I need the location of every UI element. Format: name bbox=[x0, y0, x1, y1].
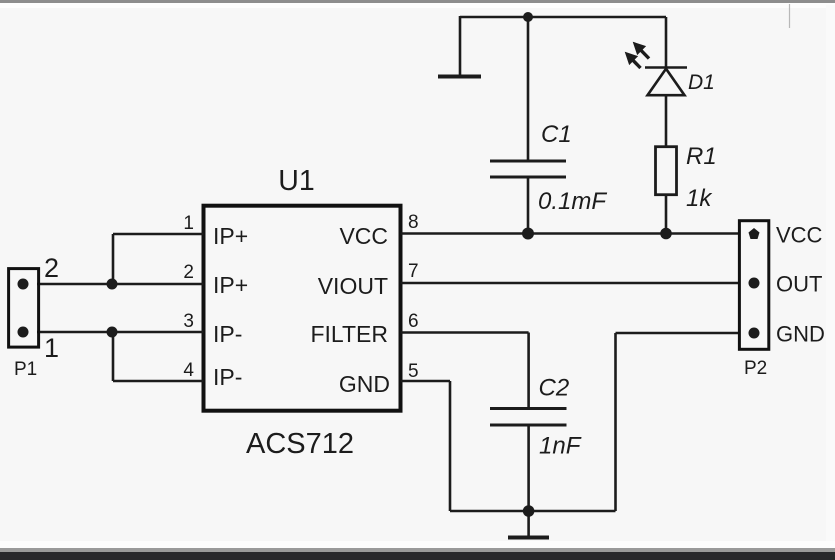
P1 pin 1 (bottom) bbox=[18, 327, 29, 338]
svg-text:P2: P2 bbox=[744, 358, 767, 379]
node: bottom rail junction bbox=[523, 505, 535, 517]
svg-text:2: 2 bbox=[44, 253, 59, 283]
wire: pin4 horizontal bbox=[113, 380, 204, 383]
P1 pin 2 (top) bbox=[18, 279, 29, 290]
screen artifact: short vertical line top-right bbox=[789, 4, 791, 28]
svg-text:4: 4 bbox=[183, 360, 194, 381]
IC U1 box bbox=[204, 206, 401, 411]
svg-text:IP+: IP+ bbox=[213, 272, 248, 298]
svg-text:1nF: 1nF bbox=[539, 433, 582, 460]
svg-text:D1: D1 bbox=[688, 71, 715, 94]
svg-text:R1: R1 bbox=[686, 143, 717, 170]
node: R1 / VCC rail junction bbox=[660, 228, 672, 240]
svg-text:VCC: VCC bbox=[776, 223, 823, 248]
wire: GND pin5 vertical bbox=[449, 381, 452, 511]
svg-text:OUT: OUT bbox=[776, 272, 822, 297]
svg-text:VCC: VCC bbox=[339, 223, 388, 249]
svg-text:0.1mF: 0.1mF bbox=[538, 188, 607, 215]
wire: C1 upper lead bbox=[527, 17, 530, 160]
wire: top rail from ground to LED bbox=[460, 16, 666, 19]
wire: C1 lower lead bbox=[527, 177, 530, 234]
svg-text:6: 6 bbox=[408, 311, 419, 332]
svg-text:ACS712: ACS712 bbox=[246, 428, 354, 460]
P2 pin VCC (pentagon) bbox=[749, 228, 760, 239]
svg-text:IP+: IP+ bbox=[213, 223, 248, 249]
node: C1 / VCC rail junction bbox=[522, 228, 534, 240]
wire: vertical branch to pin4 bbox=[112, 332, 115, 381]
wire: LED to R1 bbox=[665, 95, 668, 147]
svg-text:FILTER: FILTER bbox=[310, 321, 388, 347]
connector P1 bbox=[9, 269, 39, 348]
svg-text:GND: GND bbox=[339, 371, 390, 397]
wire: pin1 horizontal bbox=[113, 233, 204, 236]
wire: pin2 horizontal from P1 top pin bbox=[37, 283, 204, 286]
node: junction pin3/pin4 bbox=[107, 327, 118, 338]
wire: ground stub vertical top-left bbox=[459, 16, 462, 75]
svg-text:VIOUT: VIOUT bbox=[318, 273, 388, 299]
svg-text:1: 1 bbox=[183, 213, 194, 234]
svg-text:2: 2 bbox=[183, 262, 194, 283]
wire: VCC rail pin8 to P2 bbox=[401, 232, 740, 235]
node: top rail / C1 junction bbox=[523, 12, 533, 22]
capacitor C2 bbox=[490, 409, 567, 426]
wire: R1 lower lead bbox=[665, 195, 668, 234]
wire: LED upper lead bbox=[665, 17, 668, 68]
svg-text:3: 3 bbox=[183, 311, 194, 332]
LED D1 bbox=[645, 68, 687, 96]
P2 pin GND bbox=[749, 328, 760, 339]
ground symbol bottom bbox=[508, 536, 549, 540]
svg-text:1k: 1k bbox=[686, 185, 713, 212]
wire: VIOUT rail pin7 to P2 bbox=[401, 282, 740, 285]
svg-text:C1: C1 bbox=[541, 121, 572, 148]
node: junction pin1/pin2 bbox=[107, 279, 118, 290]
capacitor C1 bbox=[490, 161, 566, 177]
svg-text:IP-: IP- bbox=[213, 364, 242, 390]
svg-text:IP-: IP- bbox=[213, 321, 242, 347]
wire: P2 GND horizontal bbox=[616, 332, 740, 335]
ground symbol top-left bbox=[438, 75, 481, 79]
resistor R1 bbox=[656, 147, 677, 195]
wire: pin3 horizontal from P1 bottom pin bbox=[37, 331, 204, 334]
wire: FILTER vertical to C2 bbox=[527, 333, 530, 410]
svg-text:C2: C2 bbox=[539, 375, 570, 402]
wire: bottom rail bbox=[450, 510, 616, 513]
wire: ground stub bottom bbox=[527, 511, 530, 536]
svg-text:8: 8 bbox=[408, 212, 419, 233]
wire: P2 GND vertical bbox=[614, 333, 617, 511]
svg-text:GND: GND bbox=[776, 322, 825, 347]
wire: vertical branch to pin1 bbox=[112, 234, 115, 284]
connector P2 bbox=[739, 221, 768, 350]
svg-text:P1: P1 bbox=[14, 359, 37, 380]
svg-text:1: 1 bbox=[44, 333, 59, 363]
LED light arrows bbox=[626, 43, 650, 69]
P2 pin OUT bbox=[749, 278, 760, 289]
wire: FILTER horizontal bbox=[401, 331, 529, 334]
wire: C2 lower lead bbox=[527, 425, 530, 511]
svg-text:U1: U1 bbox=[278, 165, 314, 197]
svg-text:5: 5 bbox=[408, 361, 419, 382]
wire: GND pin5 horizontal bbox=[401, 380, 451, 383]
svg-text:7: 7 bbox=[408, 261, 419, 282]
